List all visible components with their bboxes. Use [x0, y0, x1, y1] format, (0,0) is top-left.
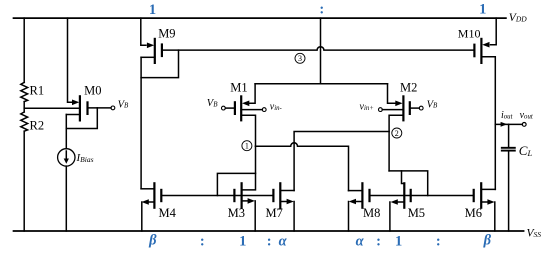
node 2: [392, 128, 402, 138]
transistor M9: [141, 39, 162, 63]
wire M5 source to VSS: [389, 202, 391, 231]
wire VDD to M10 source: [491, 18, 497, 45]
wire VDD to R1: [23, 18, 25, 82]
svg-text:M5: M5: [408, 206, 425, 220]
wire M1 bulk to vin- terminal: [241, 109, 262, 111]
wire M9 gate to M10 gate with hop over node3 wire: [162, 47, 475, 50]
node 3: [295, 53, 305, 63]
wire M2 gate to VB terminal: [410, 107, 420, 109]
svg-text::: :: [267, 234, 272, 250]
terminal vin- of M1: [262, 108, 266, 112]
wire M1 gate to VB terminal: [225, 107, 235, 109]
node 1: [242, 141, 252, 151]
wire M9 drain down to M4 drain: [140, 57, 142, 189]
wire M0 drain to gate (diode connection): [66, 108, 97, 129]
svg-text:VB: VB: [427, 99, 438, 110]
svg-text:R1: R1: [30, 84, 45, 98]
iout current arrow: [501, 122, 508, 127]
svg-text:M10: M10: [458, 27, 481, 41]
transistor M10: [474, 39, 489, 63]
resistor R1: [21, 82, 28, 101]
terminal vout: [522, 123, 526, 127]
transistor M3: [234, 183, 255, 207]
wire M1 drain down to node1: [241, 115, 255, 146]
wire IBias to VSS: [65, 166, 67, 231]
wire M5 drain riser from box: [402, 171, 405, 184]
VDD rail: [14, 17, 506, 19]
terminal VB of M2: [419, 106, 423, 110]
transistor M8: [349, 183, 370, 207]
svg-text:β: β: [483, 233, 492, 249]
wire R1 to R2 junction: [23, 102, 25, 112]
wire M10 drain down to output node and M6 drain: [481, 57, 495, 190]
wire M3 diode box (drain to gate): [217, 173, 255, 195]
wire VDD to M0 source: [68, 18, 73, 102]
wire node2 to M7 drain: [294, 132, 389, 191]
wire R1R2 junction to M0 bulk: [24, 107, 80, 109]
svg-text::: :: [200, 234, 205, 250]
svg-text:M0: M0: [84, 83, 101, 97]
svg-text:3: 3: [298, 54, 302, 63]
resistor R2: [21, 112, 28, 131]
svg-text:M3: M3: [228, 206, 245, 220]
wire M2 source riser: [388, 84, 397, 104]
wire M6 source to VSS: [494, 202, 496, 231]
svg-text:α: α: [279, 233, 288, 249]
transistor M4: [141, 183, 161, 207]
svg-text:2: 2: [395, 129, 399, 138]
wire node1 to M8 drain with hop over M7 riser: [256, 143, 349, 191]
wire output to CL: [508, 124, 510, 147]
wire M8 source to VSS: [348, 202, 350, 232]
wire gate line M8-M5-M6: [370, 195, 474, 197]
wire node1 down to M3 drain: [242, 146, 256, 190]
wire M7 source to VSS: [293, 202, 295, 232]
svg-text:M8: M8: [363, 206, 380, 220]
transistor M1: [235, 96, 249, 120]
wire VDD to M9 source: [141, 18, 146, 45]
svg-text:M2: M2: [400, 81, 417, 95]
svg-text:M7: M7: [266, 206, 283, 220]
transistor M7: [273, 183, 294, 207]
wire M1 source riser: [248, 84, 256, 104]
svg-text:1: 1: [479, 2, 486, 18]
terminal VB of M1: [222, 106, 226, 110]
terminal vin+ of M2: [379, 108, 383, 112]
terminal VB of M0: [111, 106, 115, 110]
wire M5 diode box top to gate line: [389, 171, 428, 196]
wire R2 to VSS: [23, 131, 25, 231]
svg-text::: :: [376, 234, 381, 250]
svg-text:M4: M4: [159, 206, 177, 220]
svg-text:VB: VB: [118, 99, 129, 110]
svg-text:R2: R2: [30, 119, 45, 133]
transistor M5: [391, 183, 411, 207]
svg-text::: :: [319, 1, 324, 17]
wire M2 drain down to node2 and M5 diode box: [389, 115, 403, 171]
wire output node to vout terminal: [495, 123, 522, 125]
capacitor CL: [502, 148, 515, 151]
svg-text:β: β: [148, 233, 157, 249]
wire M2 bulk to vin+ terminal: [382, 109, 403, 111]
wire gate line M4-M3-M7: [161, 195, 273, 197]
wire M0 drain to IBias: [65, 129, 67, 149]
svg-text:M6: M6: [465, 206, 482, 220]
current source IBias: [58, 149, 75, 166]
wire CL to VSS: [508, 151, 510, 231]
svg-text:α: α: [356, 233, 365, 249]
svg-text:M9: M9: [158, 27, 175, 41]
wire M0 gate to VB terminal: [88, 107, 112, 109]
transistor M6: [474, 183, 496, 207]
transistor M2: [395, 96, 410, 120]
wire VDD to node3 tail: [320, 18, 322, 84]
svg-text:1: 1: [239, 234, 246, 250]
svg-text:1: 1: [395, 234, 402, 250]
wire M4 source to VSS: [141, 202, 143, 231]
wire M3 source to VSS: [254, 201, 256, 231]
svg-text:VB: VB: [207, 98, 218, 109]
svg-text:1: 1: [245, 142, 249, 151]
svg-text::: :: [436, 234, 441, 250]
VSS rail: [14, 230, 524, 232]
svg-text:1: 1: [149, 2, 156, 18]
wire tail node3 (M1 source to M2 source): [255, 83, 387, 85]
svg-text:M1: M1: [230, 81, 247, 95]
wire M9 drain to gate (diode loop): [141, 50, 178, 78]
transistor M0: [66, 96, 87, 120]
